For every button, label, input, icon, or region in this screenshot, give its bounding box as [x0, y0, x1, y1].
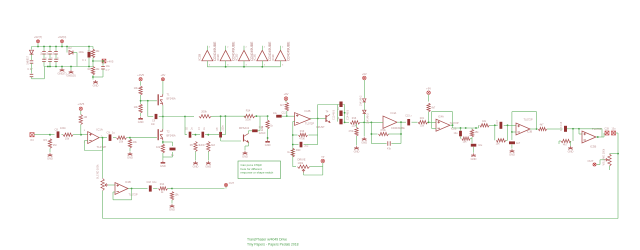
junction	[102, 137, 104, 139]
junction	[195, 134, 197, 136]
junction	[92, 60, 94, 62]
wire	[318, 118, 326, 120]
junction	[131, 188, 133, 190]
potentiometer BLEND 100k	[101, 179, 104, 191]
svg-text:BLEND 100k: BLEND 100k	[96, 164, 99, 179]
svg-text:1N4148-2: 1N4148-2	[360, 95, 363, 106]
wire	[616, 132, 618, 134]
junction	[597, 136, 599, 138]
junction	[80, 134, 82, 136]
svg-text:CD4049UBE: CD4049UBE	[286, 41, 290, 61]
wire input stub	[280, 61, 282, 67]
pad +9V(D)	[61, 40, 64, 43]
resistor R11 200k	[199, 115, 211, 118]
wire	[172, 142, 174, 146]
wire	[153, 188, 157, 190]
svg-text:TL072P: TL072P	[524, 117, 533, 121]
wire	[49, 62, 51, 67]
junction	[220, 115, 222, 117]
wire	[220, 138, 222, 142]
svg-text:IC2B: IC2B	[305, 109, 311, 113]
wire	[453, 127, 479, 129]
wire	[558, 141, 560, 144]
wire	[88, 58, 90, 67]
svg-text:GND: GND	[242, 155, 248, 159]
junction	[140, 100, 142, 102]
wire feedback	[432, 127, 437, 129]
junction	[61, 66, 63, 68]
svg-text:IC2C: IC2C	[216, 53, 220, 61]
wire	[428, 121, 436, 123]
wire feedback	[432, 111, 453, 113]
wire feedback	[431, 112, 433, 129]
svg-text:10u: 10u	[152, 181, 157, 184]
capacitor C11 1u electrolytic	[170, 148, 176, 151]
inverter IC2F CD4049UBE	[275, 50, 286, 61]
wire	[244, 146, 246, 151]
svg-text:C 47: C 47	[27, 68, 33, 71]
wire feedback	[579, 128, 602, 130]
wire	[162, 153, 164, 157]
wire	[127, 137, 131, 139]
wire	[225, 115, 246, 117]
capacitor C29 10u	[149, 185, 152, 191]
svg-text:+4V5: +4V5	[107, 59, 114, 63]
ground	[161, 161, 166, 164]
wire	[511, 145, 513, 149]
svg-text:R21: R21	[420, 117, 425, 120]
wire	[159, 116, 163, 118]
svg-text:GND: GND	[509, 153, 515, 157]
wire output stub	[243, 46, 245, 51]
wire	[360, 121, 372, 123]
svg-text:200k: 200k	[201, 110, 207, 114]
wiper VOLUME	[605, 158, 608, 161]
wire	[73, 52, 77, 54]
wire	[356, 136, 358, 146]
wire	[578, 129, 580, 134]
wire	[286, 111, 288, 116]
op-amp IC1B	[115, 183, 128, 195]
svg-text:R3: R3	[43, 138, 47, 142]
wire	[129, 148, 131, 152]
ground	[48, 153, 53, 156]
wire	[363, 114, 365, 123]
junction	[49, 46, 51, 48]
ground	[362, 137, 367, 140]
capacitor C19 1u	[339, 102, 342, 108]
resistor R28 10k	[496, 139, 506, 142]
junction	[465, 127, 467, 129]
wire	[49, 47, 51, 52]
svg-text:GND: GND	[568, 150, 574, 154]
wire phase line	[163, 116, 185, 118]
svg-text:4u7: 4u7	[516, 142, 521, 145]
svg-text:GND: GND	[361, 141, 367, 145]
resistor R12 3k3	[194, 142, 197, 152]
wire	[470, 138, 472, 140]
wire	[162, 157, 164, 160]
inverter IC2D CD4049UBE	[239, 50, 250, 61]
junction	[225, 115, 227, 117]
svg-text:C14-48-3: C14-48-3	[346, 109, 349, 120]
svg-text:100k: 100k	[298, 161, 304, 165]
svg-text:+4V5: +4V5	[77, 102, 84, 106]
junction	[317, 118, 319, 120]
pad +9V	[284, 97, 288, 101]
wire	[43, 54, 45, 59]
ground	[510, 149, 515, 152]
capacitor C17 10u electrolytic	[276, 115, 282, 118]
svg-text:IC3B: IC3B	[527, 130, 533, 133]
wire	[303, 173, 305, 176]
op-amp IC3A	[295, 113, 311, 126]
junction	[37, 46, 39, 48]
wire pad stub	[61, 43, 63, 46]
junction	[256, 115, 258, 117]
junction	[371, 133, 373, 135]
ground	[568, 146, 573, 149]
capacitor C7 10u	[101, 67, 105, 69]
junction	[363, 122, 365, 124]
svg-text:100u: 100u	[78, 51, 84, 54]
wire feedback	[601, 129, 603, 137]
wire	[282, 115, 295, 117]
ground	[193, 161, 198, 164]
wire feedback	[113, 199, 132, 201]
wire	[102, 61, 104, 66]
wire	[248, 131, 250, 134]
op-amp IC1A	[88, 132, 100, 144]
svg-text:100n: 100n	[60, 126, 66, 130]
svg-text:C13-48-3: C13-48-3	[333, 109, 336, 120]
svg-text:10k: 10k	[133, 140, 138, 144]
junction	[494, 124, 496, 126]
svg-text:1N4148-3: 1N4148-3	[367, 113, 370, 124]
wire	[185, 116, 194, 118]
capacitor C21 1u	[339, 119, 342, 125]
wire	[31, 54, 33, 60]
capacitor C16 220n	[252, 129, 258, 132]
wire	[108, 184, 115, 186]
svg-text:TL072P: TL072P	[97, 145, 107, 149]
wire feedback	[452, 112, 454, 126]
svg-text:470k: 470k	[299, 137, 305, 140]
junction	[55, 46, 57, 48]
wire	[489, 124, 497, 126]
pad +4V5	[79, 107, 82, 110]
wire feedback	[370, 122, 372, 143]
svg-text:R14: R14	[246, 110, 251, 113]
wire	[322, 163, 324, 175]
svg-text:10n: 10n	[151, 123, 156, 126]
wire	[132, 188, 148, 190]
wire GND rail	[44, 66, 93, 68]
inverter IC2B CD4049UBE	[202, 50, 213, 61]
junction	[55, 66, 57, 68]
svg-text:IC2E: IC2E	[253, 54, 257, 61]
resistor R23 470k	[379, 132, 389, 135]
svg-text:OUT: OUT	[229, 182, 235, 185]
pad +9V	[427, 91, 431, 95]
capacitor C23 100n	[407, 119, 410, 125]
junction	[207, 134, 209, 136]
svg-text:4k7: 4k7	[563, 143, 568, 146]
junction	[184, 116, 186, 118]
capacitor C26 4u7 electrolytic	[509, 141, 515, 144]
svg-text:DRIVE: DRIVE	[298, 158, 306, 162]
svg-text:C8: C8	[55, 128, 59, 132]
wire	[293, 144, 299, 146]
inverter IC2C CD4049UBE	[220, 50, 231, 61]
wire	[49, 54, 51, 59]
resistor R9 10k	[139, 104, 142, 113]
resistor R26 15k	[470, 129, 473, 137]
capacitor C25 10u electrolytic	[471, 144, 477, 147]
junction	[261, 66, 263, 68]
junction	[49, 134, 51, 136]
wire	[450, 124, 453, 126]
inverter IC2A CD4049UBE	[383, 116, 397, 128]
junction	[400, 121, 402, 123]
wire	[195, 152, 197, 161]
wire	[428, 112, 430, 123]
wire stub	[225, 186, 227, 188]
wire down	[220, 116, 222, 132]
junction	[371, 122, 373, 124]
svg-text:response or shape switch: response or shape switch	[241, 171, 274, 175]
junction	[43, 46, 45, 48]
svg-text:10u: 10u	[273, 112, 278, 115]
wire	[397, 121, 403, 123]
wire	[559, 140, 561, 142]
potentiometer DRIVE 100k	[298, 165, 310, 168]
wire	[92, 47, 94, 50]
resistor R17 1k	[291, 148, 294, 157]
pad SHAPE	[224, 183, 227, 186]
svg-text:C18: C18	[147, 181, 152, 184]
svg-text:C13: C13	[497, 120, 499, 125]
ground	[471, 153, 476, 156]
wire	[55, 62, 57, 67]
svg-text:VOLUME 100k: VOLUME 100k	[602, 148, 605, 165]
junction	[267, 137, 269, 139]
wire	[344, 105, 346, 123]
ground	[170, 204, 175, 207]
junction	[292, 144, 294, 146]
svg-text:100k: 100k	[245, 119, 251, 122]
wire	[473, 147, 475, 153]
resistor R5 1M	[79, 115, 82, 125]
svg-text:IC4A: IC4A	[391, 111, 397, 115]
svg-text:C 1: C 1	[82, 59, 87, 62]
ground	[243, 151, 248, 154]
junction	[400, 133, 402, 135]
resistor R1 10k	[91, 49, 94, 58]
op-amp IC4B	[516, 123, 530, 135]
wire to T2 gate	[130, 137, 157, 139]
pad +9V	[363, 76, 367, 80]
junction	[49, 66, 51, 68]
wire	[504, 124, 516, 126]
wire	[310, 166, 323, 168]
resistor R2 10k	[91, 67, 94, 76]
capacitor C24 10u electrolytic	[459, 131, 462, 137]
wire	[258, 130, 261, 132]
wire	[572, 129, 574, 141]
wire	[494, 125, 496, 140]
wire stub	[293, 121, 295, 123]
wire	[579, 133, 582, 135]
wire	[80, 125, 82, 135]
capacitor 100n	[48, 59, 52, 61]
svg-text:10k: 10k	[134, 86, 139, 90]
junction	[286, 115, 288, 117]
wire output stub	[206, 46, 208, 51]
svg-text:IC2F: IC2F	[271, 54, 275, 61]
wire	[363, 80, 365, 98]
wire feedback	[113, 191, 115, 193]
wire	[363, 122, 365, 136]
wire	[70, 67, 72, 71]
wire	[547, 128, 563, 130]
diode D6 1N4148	[363, 110, 366, 113]
wire up	[259, 116, 261, 131]
wire	[530, 128, 537, 130]
capacitor C1 47u	[30, 61, 34, 63]
svg-text:R20: R20	[296, 149, 301, 152]
wire	[371, 121, 383, 123]
resistor R3 1M	[48, 139, 51, 148]
wire to T1 gate	[141, 100, 157, 102]
wire input stub	[225, 61, 227, 67]
capacitor C27 4u7 electrolytic	[564, 126, 567, 132]
svg-text:IC4A: IC4A	[438, 115, 444, 119]
resistor R27 10k	[480, 124, 489, 127]
capacitor C9 1u	[109, 134, 112, 141]
svg-text:220n: 220n	[223, 125, 225, 131]
transistor T4	[325, 115, 327, 122]
op-amp IC4A	[436, 119, 450, 131]
wire	[205, 134, 208, 136]
junction	[162, 141, 164, 143]
svg-text:BF245A: BF245A	[167, 135, 176, 138]
junction	[511, 131, 513, 133]
resistor R13 3k3	[207, 142, 210, 152]
junction	[475, 127, 477, 129]
resistor R14 100k	[244, 114, 255, 117]
wire	[511, 132, 513, 140]
wire output	[99, 137, 102, 139]
resistor R29 4k7	[538, 127, 547, 130]
svg-text:OUT: OUT	[587, 159, 593, 163]
junction	[225, 66, 227, 68]
pad IN	[30, 133, 34, 137]
wire pot bottom stub	[609, 166, 611, 170]
wire	[92, 58, 94, 67]
pad +9V	[161, 78, 164, 81]
wire	[171, 200, 173, 204]
svg-text:R14: R14	[160, 183, 165, 186]
wire	[570, 141, 572, 146]
wire	[113, 137, 116, 139]
resistor R20 110k	[350, 121, 360, 124]
wire	[148, 116, 153, 118]
junction	[92, 76, 94, 78]
wire pad stub	[37, 43, 39, 46]
wire hop	[318, 104, 345, 106]
svg-text:10u: 10u	[478, 144, 483, 147]
svg-text:GND: GND	[93, 84, 99, 88]
wire input stub	[243, 61, 245, 67]
wire output stub	[280, 46, 282, 51]
wire input stub	[206, 61, 208, 67]
wire	[162, 140, 164, 144]
svg-text:IC1B: IC1B	[125, 180, 131, 184]
svg-text:TL072P: TL072P	[450, 121, 459, 125]
wire	[391, 143, 401, 145]
svg-text:4k7: 4k7	[540, 124, 545, 127]
wire	[80, 134, 82, 136]
svg-text:GND: GND	[193, 165, 199, 169]
ground GND(T)	[60, 68, 65, 71]
wire up hop	[317, 105, 319, 119]
svg-text:4k7: 4k7	[431, 107, 436, 110]
wire blend bottom to loop	[102, 191, 104, 219]
diode D1 1N5817	[30, 50, 34, 54]
wire	[507, 125, 509, 140]
resistor R18 56k	[299, 133, 308, 136]
svg-text:GND: GND	[127, 156, 133, 160]
capacitor C6 100u electrolytic	[88, 52, 91, 58]
wire	[597, 164, 600, 166]
svg-text:CD4049UBE: CD4049UBE	[391, 127, 405, 130]
wiper DRIVE	[302, 169, 305, 172]
wire	[460, 128, 462, 131]
wire to feedback loop	[617, 133, 619, 219]
svg-text:TL072P: TL072P	[305, 122, 314, 126]
wire	[389, 133, 402, 135]
ground	[93, 80, 98, 83]
svg-text:IN: IN	[31, 138, 34, 142]
resistor R8 10k	[139, 86, 142, 95]
wire	[43, 47, 45, 52]
op-amp IC3B	[582, 131, 596, 143]
svg-text:1M: 1M	[53, 143, 57, 147]
svg-text:10k: 10k	[65, 136, 70, 140]
ground	[206, 161, 211, 164]
wire feedback	[512, 131, 516, 133]
wire feedback	[536, 112, 538, 129]
wire	[55, 54, 57, 59]
wire	[371, 143, 386, 145]
wire	[304, 174, 323, 176]
svg-text:MPSA13: MPSA13	[239, 126, 250, 130]
capacitor 100n	[42, 52, 46, 54]
wire	[255, 115, 268, 117]
wire output stub	[225, 46, 227, 51]
junction	[344, 122, 346, 124]
svg-text:220u: 220u	[262, 125, 264, 131]
svg-text:+9V(D): +9V(D)	[58, 35, 67, 39]
wire	[93, 76, 103, 78]
wire	[363, 102, 365, 110]
resistor R31 1k	[159, 187, 168, 190]
capacitor 100n	[48, 52, 52, 54]
pad +4V5	[102, 59, 106, 63]
wire	[207, 152, 209, 161]
inverter IC2E CD4049UBE	[257, 50, 268, 61]
